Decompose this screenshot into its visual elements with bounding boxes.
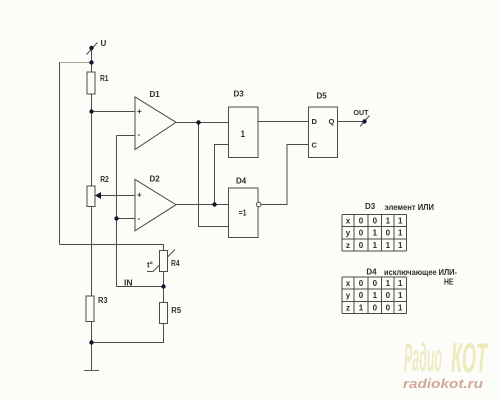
svg-text:0: 0 <box>359 229 364 238</box>
svg-text:R2: R2 <box>100 175 109 184</box>
svg-text:y: y <box>346 229 351 238</box>
svg-text:D5: D5 <box>317 92 328 101</box>
svg-text:R4: R4 <box>171 259 180 268</box>
svg-text:D4: D4 <box>236 177 247 186</box>
svg-text:1: 1 <box>398 279 403 288</box>
svg-text:OUT: OUT <box>354 110 370 117</box>
svg-text:R5: R5 <box>171 306 181 315</box>
svg-text:0: 0 <box>373 303 378 312</box>
svg-text:1: 1 <box>386 241 391 250</box>
svg-text:D1: D1 <box>150 90 161 99</box>
svg-text:Радио: Радио <box>404 336 442 380</box>
svg-text:1: 1 <box>398 303 403 312</box>
svg-text:1: 1 <box>386 279 391 288</box>
svg-text:-: - <box>138 130 141 139</box>
svg-text:radiokot.ru: radiokot.ru <box>403 376 483 391</box>
svg-text:R3: R3 <box>98 296 108 305</box>
svg-text:IN: IN <box>124 279 133 288</box>
svg-text:z: z <box>346 303 350 312</box>
svg-text:НЕ: НЕ <box>444 278 454 287</box>
svg-text:0: 0 <box>359 291 364 300</box>
svg-text:0: 0 <box>359 279 364 288</box>
svg-text:1: 1 <box>386 217 391 226</box>
svg-text:D: D <box>312 117 318 126</box>
svg-text:+: + <box>137 191 142 200</box>
svg-text:0: 0 <box>386 229 391 238</box>
svg-text:D3: D3 <box>234 90 245 99</box>
svg-text:x: x <box>346 217 351 226</box>
svg-text:0: 0 <box>359 241 364 250</box>
svg-text:0: 0 <box>373 217 378 226</box>
svg-text:+: + <box>137 107 142 116</box>
svg-text:Q: Q <box>329 117 335 126</box>
svg-text:исключающее ИЛИ-: исключающее ИЛИ- <box>384 268 457 277</box>
svg-text:1: 1 <box>373 229 378 238</box>
svg-text:z: z <box>346 241 350 250</box>
svg-text:КОТ: КОТ <box>451 334 488 381</box>
svg-text:U: U <box>101 39 107 48</box>
svg-text:D2: D2 <box>150 175 161 184</box>
svg-text:элемент ИЛИ: элемент ИЛИ <box>385 203 435 212</box>
svg-text:0: 0 <box>386 303 391 312</box>
svg-text:1: 1 <box>398 229 403 238</box>
svg-text:0: 0 <box>359 217 364 226</box>
svg-text:D3: D3 <box>365 202 376 211</box>
svg-text:0: 0 <box>373 279 378 288</box>
svg-text:R1: R1 <box>100 74 109 83</box>
svg-text:1: 1 <box>398 291 403 300</box>
svg-text:1: 1 <box>398 241 403 250</box>
svg-text:1: 1 <box>398 217 403 226</box>
svg-text:1: 1 <box>373 291 378 300</box>
svg-text:t°: t° <box>147 261 153 270</box>
svg-text:1: 1 <box>373 241 378 250</box>
svg-text:D4: D4 <box>366 268 377 277</box>
svg-text:x: x <box>346 279 351 288</box>
svg-text:0: 0 <box>386 291 391 300</box>
svg-text:-: - <box>138 214 141 223</box>
svg-text:=1: =1 <box>239 209 247 218</box>
svg-text:1: 1 <box>359 303 364 312</box>
svg-text:1: 1 <box>241 129 245 139</box>
svg-text:y: y <box>346 291 351 300</box>
svg-text:C: C <box>312 141 318 150</box>
